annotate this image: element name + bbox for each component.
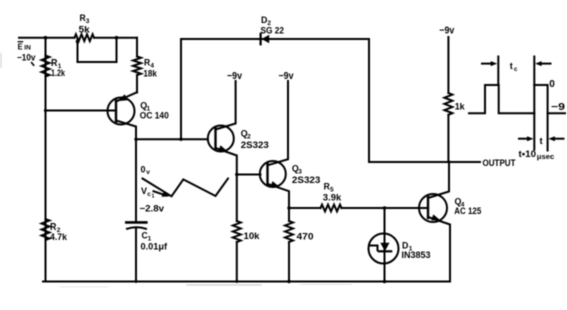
node emitter xyxy=(134,138,137,141)
node Q2 emitter junction xyxy=(235,173,238,176)
wire top input horizontal xyxy=(19,37,75,39)
arrow t left xyxy=(519,136,534,141)
label R3 5k xyxy=(79,13,91,35)
node loop left xyxy=(76,40,80,44)
label R2 4.7k xyxy=(50,222,68,243)
tick t bottom left xyxy=(533,113,535,149)
resistor R4 xyxy=(133,38,141,93)
svg-text:1k: 1k xyxy=(455,101,466,112)
label -10v xyxy=(17,52,36,62)
svg-text:−9v: −9v xyxy=(227,71,242,82)
svg-text:t•10: t•10 xyxy=(519,149,537,159)
label tc xyxy=(510,61,518,73)
waveform output pulses xyxy=(469,85,565,113)
arrow tc left xyxy=(482,61,497,66)
node 470 bottom xyxy=(287,280,290,283)
wire Q3 base xyxy=(237,174,261,176)
capacitor C1 xyxy=(126,222,146,228)
label Q3 2S323 xyxy=(292,163,321,186)
node D1 top tap xyxy=(383,206,386,209)
diode D2 xyxy=(261,34,270,45)
label 0 pulse xyxy=(549,79,555,90)
wire 470 branch xyxy=(285,208,293,282)
svg-text:2S323: 2S323 xyxy=(241,140,269,151)
resistor R2 xyxy=(42,219,50,240)
svg-text:IN3853: IN3853 xyxy=(402,250,431,261)
wire D2 loop xyxy=(181,39,480,162)
svg-text:t: t xyxy=(540,136,544,147)
wire 1k branch xyxy=(444,37,452,162)
label -9v top right xyxy=(439,26,454,37)
scan artifact shadow under rail xyxy=(60,285,352,288)
svg-text:3.9k: 3.9k xyxy=(323,192,342,203)
svg-text:0: 0 xyxy=(141,165,146,175)
label 470 xyxy=(297,232,314,243)
tick tc left xyxy=(497,57,499,86)
wire 10k branch xyxy=(233,175,241,282)
label -9 pulse xyxy=(551,102,566,113)
label R1 1.2k xyxy=(51,58,66,79)
transistor Q2 xyxy=(208,81,237,175)
label E_IN xyxy=(18,41,31,51)
wire left rail xyxy=(45,38,47,282)
svg-text:−9: −9 xyxy=(551,102,566,113)
svg-text:μsec: μsec xyxy=(537,154,555,161)
arrow tc right xyxy=(535,61,550,66)
label D2 SG22 xyxy=(261,15,285,37)
svg-text:AC 125: AC 125 xyxy=(454,206,482,217)
label D1 IN3853 xyxy=(402,241,431,262)
tick tc right xyxy=(533,57,535,86)
resistor R5 xyxy=(321,205,342,212)
wire R5 to Q4 base xyxy=(342,207,429,209)
arrow t right xyxy=(548,136,563,141)
wire Q1 base xyxy=(46,110,117,112)
label t=10usec xyxy=(519,149,555,161)
node input junction xyxy=(44,36,48,40)
label t pulse xyxy=(540,136,544,147)
label R5 3.9k xyxy=(323,182,342,204)
svg-text:SG 22: SG 22 xyxy=(261,26,285,37)
svg-text:10k: 10k xyxy=(244,231,261,242)
node Q1 base rail xyxy=(44,109,47,112)
wire bottom rail xyxy=(43,281,450,283)
svg-text:E: E xyxy=(18,41,23,51)
svg-text:R: R xyxy=(144,58,150,69)
wire C1 branch xyxy=(135,139,137,281)
node output junction xyxy=(448,161,451,164)
svg-text:V: V xyxy=(141,186,147,196)
label Vc1 xyxy=(141,186,155,200)
scan artifact left edge xyxy=(0,53,2,68)
label -2.8v xyxy=(140,204,165,215)
node D2 left tap xyxy=(179,138,182,141)
arrow Vc1 pointer xyxy=(154,191,170,197)
svg-text:0: 0 xyxy=(549,79,555,90)
wire R5 node horizontal xyxy=(289,207,321,209)
label -9v mid xyxy=(279,71,294,82)
transistor Q4 xyxy=(419,162,450,282)
label Q4 AC125 xyxy=(454,197,482,217)
svg-text:OUTPUT: OUTPUT xyxy=(483,158,516,168)
svg-text:2S323: 2S323 xyxy=(292,175,321,186)
label Q1 OC140 xyxy=(140,100,169,121)
svg-text:c: c xyxy=(514,66,518,73)
wire top to R4 corner xyxy=(94,37,137,39)
label -9v left xyxy=(227,71,242,82)
tick t bottom right xyxy=(547,113,549,150)
transistor Q3 xyxy=(260,81,289,208)
svg-text:0.01μf: 0.01μf xyxy=(141,242,168,253)
label R4 18k xyxy=(143,58,157,80)
svg-text:−2.8v: −2.8v xyxy=(140,204,165,215)
node D1 bottom xyxy=(383,280,387,284)
svg-text:OC 140: OC 140 xyxy=(140,110,169,121)
label C1 0.01uf xyxy=(141,231,168,253)
svg-text:R: R xyxy=(324,182,330,193)
svg-text:−9v: −9v xyxy=(279,71,294,82)
resistor R3 xyxy=(75,34,95,41)
wire R3 bypass loop xyxy=(78,38,117,62)
svg-text:−10v: −10v xyxy=(17,52,36,62)
resistor R1 xyxy=(42,56,50,77)
node loop right xyxy=(115,36,119,40)
svg-text:18k: 18k xyxy=(143,69,157,80)
diode D1 tunnel xyxy=(369,208,399,282)
node 10k bottom xyxy=(235,280,238,283)
label OUTPUT xyxy=(483,158,516,168)
node C1 bottom xyxy=(135,280,138,283)
transistor Q1 xyxy=(108,93,137,140)
waveform Vc1 sawtooth xyxy=(143,179,229,197)
svg-text:−9v: −9v xyxy=(439,26,454,37)
svg-text:v: v xyxy=(146,169,150,176)
svg-text:1.2k: 1.2k xyxy=(51,68,66,79)
svg-text:5k: 5k xyxy=(79,24,91,35)
label 0v xyxy=(141,165,151,177)
svg-text:4.7k: 4.7k xyxy=(50,232,68,243)
svg-text:1: 1 xyxy=(152,194,155,200)
svg-text:t: t xyxy=(510,61,513,71)
svg-text:IN: IN xyxy=(24,45,31,51)
svg-text:470: 470 xyxy=(297,232,314,243)
wire emitter node horizontal xyxy=(136,138,208,140)
label Q2 2S323 xyxy=(241,128,269,151)
label 10k xyxy=(244,231,261,242)
label 1k xyxy=(455,101,466,112)
arrow E_IN tick xyxy=(32,63,34,66)
node Q3 emitter junction xyxy=(287,206,290,209)
